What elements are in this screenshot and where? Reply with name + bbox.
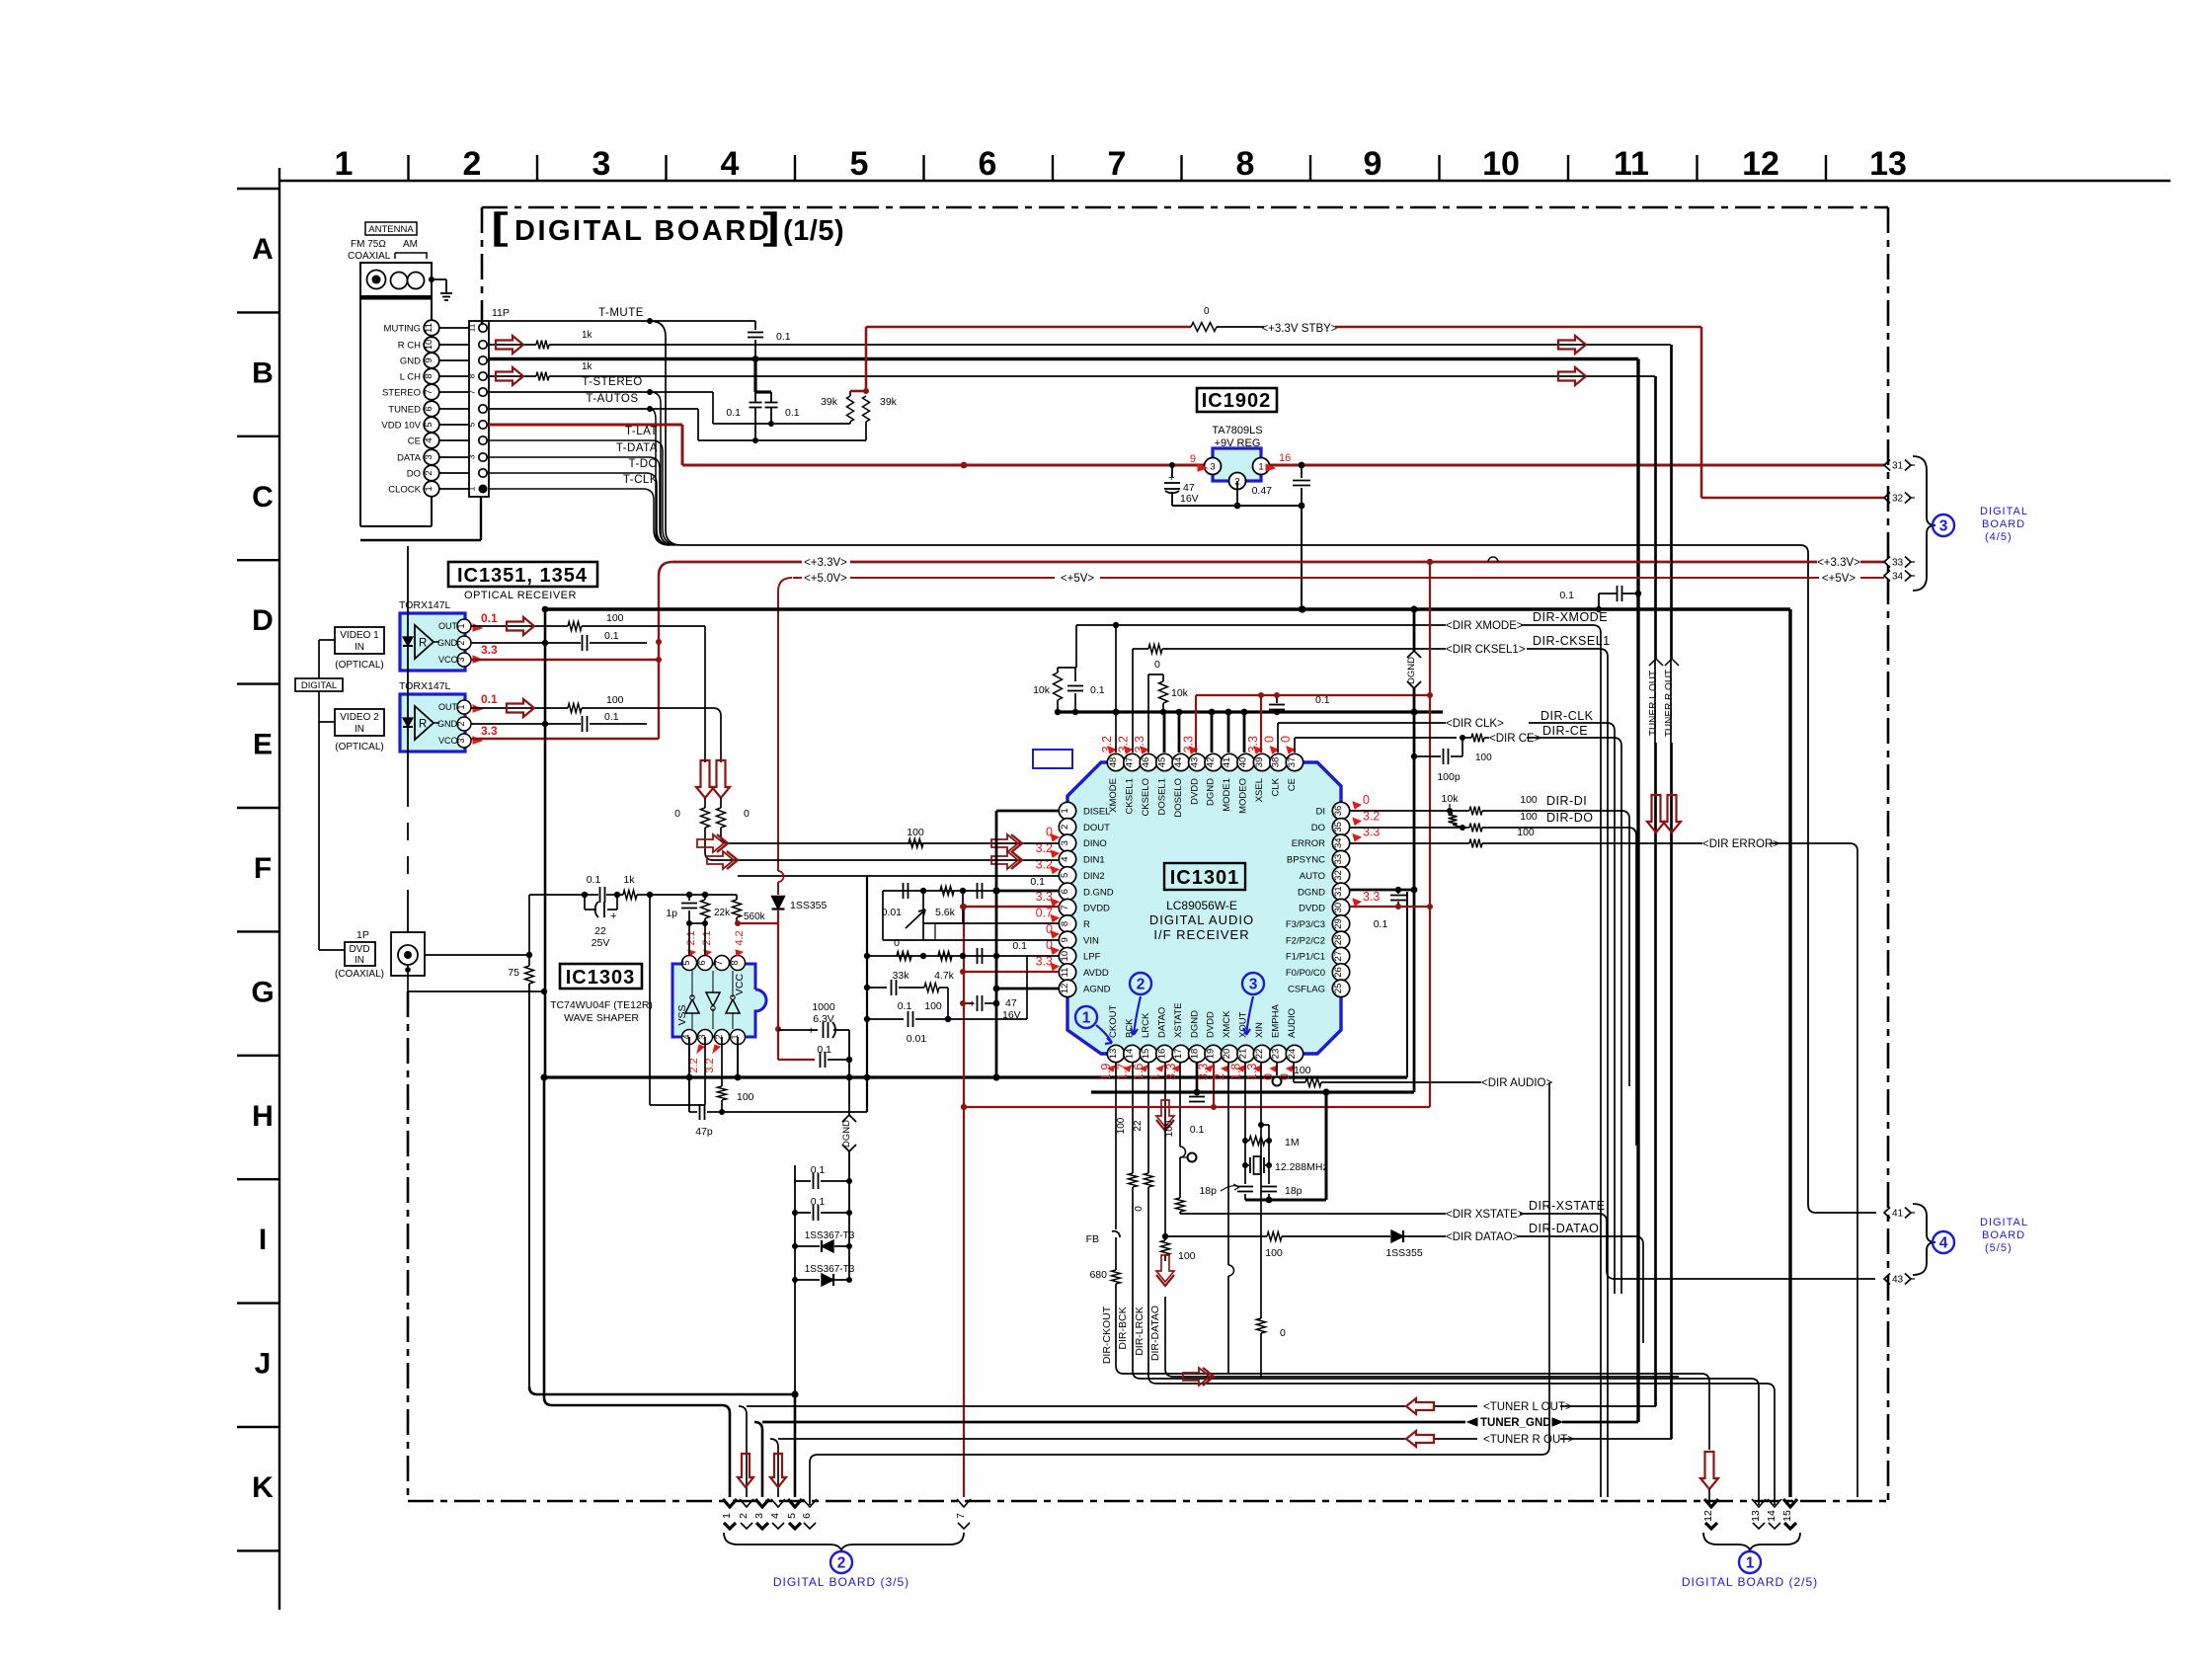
svg-text:IN: IN [355,955,364,966]
svg-text:0.1: 0.1 [811,1196,826,1208]
svg-text:32: 32 [1333,870,1344,881]
svg-text:680: 680 [1089,1269,1107,1281]
svg-text:T-AUTOS: T-AUTOS [586,393,638,405]
svg-text:DOSEL1: DOSEL1 [1156,778,1167,816]
svg-text:DIR-CKOUT: DIR-CKOUT [1101,1306,1113,1364]
svg-text:CKSELO: CKSELO [1141,778,1151,817]
svg-text:2: 2 [1213,1073,1226,1080]
svg-text:11: 11 [1614,145,1649,183]
svg-text:9: 9 [1364,145,1382,183]
svg-text:T-DO: T-DO [629,458,658,470]
svg-text:VDD 10V: VDD 10V [381,421,421,432]
svg-text:7: 7 [1108,145,1127,183]
svg-text:0.1: 0.1 [587,874,601,886]
svg-text:8: 8 [730,960,740,965]
svg-text:IC1303: IC1303 [566,967,636,989]
svg-text:0.1: 0.1 [1012,940,1027,952]
svg-text:100: 100 [1178,1250,1196,1262]
svg-text:3.3: 3.3 [1164,1064,1178,1080]
svg-text:DIGITAL: DIGITAL [1980,506,2028,517]
svg-text:12.288MHz: 12.288MHz [1275,1161,1328,1173]
svg-text:3: 3 [753,1513,765,1519]
svg-text:<DIR ERROR>: <DIR ERROR> [1702,838,1779,850]
svg-text:MODE1: MODE1 [1222,778,1232,812]
svg-text:DIR-DI: DIR-DI [1546,794,1587,808]
svg-text:I/F RECEIVER: I/F RECEIVER [1153,927,1249,942]
svg-text:F0/P0/C0: F0/P0/C0 [1286,968,1325,979]
svg-text:5: 5 [424,422,434,427]
svg-text:DIR-CLK: DIR-CLK [1540,709,1594,723]
svg-text:0.1: 0.1 [1559,590,1574,601]
svg-text:3: 3 [456,657,466,662]
svg-text:27: 27 [1333,951,1344,962]
svg-text:BOARD: BOARD [1982,1229,2025,1241]
svg-text:3: 3 [456,738,466,743]
svg-text:6: 6 [979,145,997,183]
svg-text:F1/P1/C1: F1/P1/C1 [1286,952,1325,963]
svg-text:DGND: DGND [1406,657,1417,684]
svg-text:22k: 22k [714,908,731,918]
svg-text:10: 10 [424,340,434,351]
svg-text:4.2: 4.2 [734,930,746,945]
svg-text:DIGITAL: DIGITAL [1980,1217,2028,1228]
svg-text:8: 8 [1236,145,1255,183]
svg-text:30: 30 [1333,903,1344,913]
svg-text:VCC: VCC [734,973,746,995]
svg-text:3: 3 [592,145,611,183]
svg-text:36: 36 [1333,806,1344,817]
svg-text:DIGITAL AUDIO: DIGITAL AUDIO [1149,912,1254,927]
svg-text:DO: DO [1311,823,1325,833]
svg-text:38: 38 [1271,757,1282,768]
svg-text:0.1: 0.1 [1315,694,1330,706]
svg-text:3.3: 3.3 [481,724,498,738]
svg-text:<TUNER L OUT>: <TUNER L OUT> [1483,1401,1572,1413]
svg-text:0.1: 0.1 [1090,684,1105,696]
svg-text:T-DATA: T-DATA [616,442,658,454]
svg-text:<DIR CE>: <DIR CE> [1489,733,1541,745]
svg-text:DINO: DINO [1083,838,1107,849]
svg-text:100: 100 [1520,811,1538,823]
svg-text:CKOUT: CKOUT [1108,1005,1119,1038]
svg-text:14: 14 [1766,1510,1777,1522]
svg-text:DIR-XMODE: DIR-XMODE [1533,610,1608,624]
svg-text:12: 12 [1702,1510,1714,1522]
svg-text:DVDD: DVDD [1299,904,1325,914]
svg-text:<+5V>: <+5V> [1822,573,1856,585]
svg-text:1k: 1k [623,874,635,886]
svg-text:100: 100 [606,694,624,706]
svg-text:1P: 1P [356,929,369,941]
svg-text:11: 11 [424,323,434,333]
svg-text:1: 1 [1060,808,1070,813]
svg-text:XMCK: XMCK [1222,1010,1232,1038]
svg-text:<+3.3V STBY>: <+3.3V STBY> [1261,323,1337,335]
svg-text:<+5.0V>: <+5.0V> [804,573,847,585]
svg-text:16: 16 [1156,1049,1167,1060]
svg-text:100: 100 [1164,1120,1175,1137]
svg-text:18: 18 [1189,1049,1200,1060]
svg-text:LC89056W-E: LC89056W-E [1166,899,1237,912]
svg-text:C: C [252,481,274,514]
svg-text:33: 33 [1892,558,1904,569]
svg-text:39k: 39k [821,396,838,408]
svg-text:9: 9 [1190,453,1196,465]
svg-text:TUNED: TUNED [388,405,421,416]
svg-text:<DIR DATAO>: <DIR DATAO> [1446,1231,1520,1243]
svg-text:DIGITAL: DIGITAL [301,680,337,691]
svg-text:33k: 33k [893,970,910,982]
svg-text:TA7809LS: TA7809LS [1212,425,1262,436]
svg-text:<+3.3V>: <+3.3V> [1817,557,1860,569]
svg-text:TORX147L: TORX147L [399,680,450,692]
svg-text:5: 5 [786,1513,798,1519]
svg-text:3.3: 3.3 [1363,890,1380,904]
svg-text:WAVE SHAPER: WAVE SHAPER [564,1012,639,1024]
svg-text:21: 21 [1238,1049,1249,1060]
svg-text:4: 4 [1060,856,1070,861]
svg-text:DGND: DGND [1298,887,1325,898]
svg-text:DVDD: DVDD [1083,904,1110,914]
svg-text:14: 14 [1124,1049,1135,1060]
svg-text:5: 5 [850,145,869,183]
svg-text:(COAXIAL): (COAXIAL) [335,969,384,980]
svg-text:VSS: VSS [676,1004,688,1025]
svg-text:13: 13 [1869,145,1907,183]
svg-text:0: 0 [1279,736,1293,743]
svg-text:3: 3 [424,454,434,459]
svg-text:26: 26 [1333,967,1344,978]
svg-text:DIGITAL BOARD (3/5): DIGITAL BOARD (3/5) [773,1575,909,1589]
svg-text:0.47: 0.47 [1252,485,1273,497]
svg-text:1: 1 [1746,1555,1755,1572]
svg-text:5: 5 [681,960,691,965]
svg-text:12: 12 [1060,984,1070,994]
svg-text:3: 3 [1210,462,1215,473]
svg-text:ANTENNA: ANTENNA [368,224,414,235]
svg-text:2: 2 [463,145,482,183]
svg-text:0.1: 0.1 [811,1164,826,1176]
svg-text:1.7: 1.7 [1115,1064,1129,1080]
svg-text:18p: 18p [1285,1185,1303,1197]
svg-text:10: 10 [1060,951,1070,962]
svg-text:1.3: 1.3 [1245,1064,1259,1080]
svg-text:OUT: OUT [438,621,458,631]
svg-text:3.3: 3.3 [1197,1064,1211,1080]
svg-text:560k: 560k [744,911,766,922]
svg-text:GND: GND [400,356,421,367]
svg-text:0.1: 0.1 [726,407,741,419]
svg-text:DVD: DVD [349,944,369,955]
svg-text:H: H [252,1100,274,1133]
svg-text:IN: IN [355,724,364,735]
svg-text:+: + [610,911,616,922]
svg-text:2.1: 2.1 [685,930,697,945]
svg-text:47: 47 [1005,997,1017,1009]
svg-text:3.3: 3.3 [481,643,498,657]
svg-text:48: 48 [1108,757,1119,768]
svg-text:18p: 18p [1199,1185,1217,1197]
svg-text:8: 8 [424,373,434,378]
svg-text:1: 1 [456,704,466,709]
svg-text:3: 3 [1249,977,1258,993]
svg-text:0.1: 0.1 [604,711,619,723]
svg-text:22: 22 [1133,1120,1144,1132]
svg-text:16V: 16V [1002,1009,1021,1021]
svg-text:35: 35 [1333,822,1344,832]
svg-text:DIR-LRCK: DIR-LRCK [1134,1307,1145,1356]
svg-text:31: 31 [1333,886,1344,897]
svg-text:0.1: 0.1 [776,331,791,343]
svg-text:AM: AM [403,239,418,250]
svg-text:DI: DI [1316,807,1326,818]
svg-text:9: 9 [1060,937,1070,942]
svg-text:DATAO: DATAO [1156,1007,1167,1038]
svg-text:<TUNER R OUT>: <TUNER R OUT> [1483,1434,1574,1446]
svg-text:K: K [252,1471,274,1504]
svg-text:4: 4 [1939,1235,1948,1252]
svg-text:F2/P2/C2: F2/P2/C2 [1286,935,1325,946]
svg-text:75: 75 [508,967,519,979]
svg-text:0: 0 [674,808,680,820]
svg-text:0.1: 0.1 [1190,1124,1205,1136]
svg-text:2: 2 [738,1513,750,1519]
svg-text:LPF: LPF [1083,952,1101,963]
svg-text:DATA: DATA [397,453,422,464]
svg-text:10k: 10k [1442,793,1460,805]
svg-text:6: 6 [1060,889,1070,894]
svg-text:T-STEREO: T-STEREO [582,376,643,388]
svg-text:IC1301: IC1301 [1170,867,1240,889]
svg-text:XSTATE: XSTATE [1173,1002,1184,1038]
svg-text:0.1: 0.1 [785,407,800,419]
svg-text:0.1: 0.1 [481,692,498,706]
svg-text:100: 100 [907,827,924,838]
svg-text:42: 42 [1206,757,1217,768]
svg-text:TC74WU04F (TE12R): TC74WU04F (TE12R) [550,999,653,1011]
svg-text:R: R [419,719,427,731]
svg-text:2: 2 [1137,977,1145,993]
svg-text:D.GND: D.GND [1083,887,1114,898]
svg-text:COAXIAL: COAXIAL [348,251,391,262]
svg-text:1SS367-T3: 1SS367-T3 [805,1230,855,1241]
svg-text:43: 43 [1189,757,1200,768]
svg-text:1.9: 1.9 [1099,1064,1113,1080]
svg-text:D: D [252,604,274,637]
svg-text:23: 23 [1271,1049,1282,1060]
svg-text:16: 16 [1279,452,1291,464]
svg-text:FB: FB [1086,1233,1099,1245]
svg-text:2.1: 2.1 [701,930,713,945]
svg-text:DVDD: DVDD [1206,1011,1217,1038]
svg-text:9: 9 [424,357,434,362]
svg-text:1SS355: 1SS355 [1385,1247,1423,1259]
svg-text:DVDD: DVDD [1189,778,1200,805]
svg-text:100: 100 [1517,827,1535,838]
svg-text:<DIR XMODE>: <DIR XMODE> [1446,620,1524,632]
svg-text:10: 10 [1482,145,1520,183]
svg-text:0: 0 [1363,793,1370,807]
svg-text:1k: 1k [582,361,593,372]
svg-text:B: B [252,356,274,389]
svg-text:<DIR CKSEL1>: <DIR CKSEL1> [1446,644,1526,656]
svg-text:DGND: DGND [841,1120,852,1148]
svg-text:2: 2 [456,721,466,726]
svg-text:4: 4 [769,1513,781,1519]
svg-text:DIR-XSTATE: DIR-XSTATE [1529,1199,1605,1213]
svg-text:STEREO: STEREO [382,388,421,399]
svg-text:100p: 100p [1437,771,1461,783]
svg-text:IC1902: IC1902 [1202,390,1272,412]
svg-text:R: R [419,638,427,650]
svg-text:0.01: 0.01 [907,1033,927,1045]
svg-text:1: 1 [467,486,477,491]
svg-text:1000: 1000 [812,1001,835,1013]
svg-text:28: 28 [1333,935,1344,946]
svg-text:0: 0 [1263,736,1277,743]
svg-text:1: 1 [1258,462,1263,473]
svg-text:0: 0 [894,937,900,949]
svg-text:DIGITAL BOARD (2/5): DIGITAL BOARD (2/5) [1682,1575,1818,1589]
svg-text:<+3.3V>: <+3.3V> [804,557,847,569]
svg-text:100: 100 [1265,1247,1283,1259]
svg-text:25: 25 [1333,984,1344,994]
svg-text:34: 34 [1892,572,1904,583]
svg-text:(4/5): (4/5) [1985,531,2013,543]
svg-text:19: 19 [1206,1049,1217,1060]
svg-text:15: 15 [1141,1049,1151,1060]
svg-text:0: 0 [1154,659,1160,671]
svg-text:VCC: VCC [438,736,458,746]
svg-text:+: + [808,1025,814,1037]
svg-text:OPTICAL RECEIVER: OPTICAL RECEIVER [464,590,577,601]
svg-text:ERROR: ERROR [1292,838,1325,849]
svg-text:47p: 47p [695,1126,713,1138]
svg-text:0.1: 0.1 [817,1044,831,1056]
svg-text:R: R [1083,919,1090,930]
svg-text:AGND: AGND [1083,984,1111,994]
svg-text:VCC: VCC [438,655,458,665]
svg-text:TUNER_GND: TUNER_GND [1480,1417,1551,1429]
svg-text:41: 41 [1222,757,1232,768]
svg-text:1k: 1k [582,330,593,341]
svg-text:I: I [259,1224,267,1256]
svg-text:15: 15 [1781,1510,1793,1522]
svg-text:100: 100 [1475,752,1492,763]
svg-text:16V: 16V [1180,493,1199,505]
svg-text:7: 7 [1060,905,1070,910]
svg-text:5.6k: 5.6k [935,907,956,918]
svg-text:TORX147L: TORX147L [399,599,450,611]
svg-text:DIN1: DIN1 [1083,855,1105,866]
svg-text:0.1: 0.1 [898,1000,912,1012]
svg-text:0.7: 0.7 [1036,906,1053,919]
svg-text:1: 1 [335,145,354,183]
svg-text:J: J [255,1348,272,1381]
svg-text:37: 37 [1287,757,1298,768]
svg-text:DIR-CKSEL1: DIR-CKSEL1 [1533,634,1611,648]
svg-text:2: 2 [456,640,466,645]
svg-text:13: 13 [1750,1510,1762,1522]
svg-text:1.8: 1.8 [1229,1064,1243,1080]
svg-text:1: 1 [456,623,466,628]
svg-text:GND: GND [437,719,458,729]
svg-text:EMPHA: EMPHA [1271,1004,1282,1038]
svg-text:6: 6 [801,1513,813,1519]
svg-text:1M: 1M [1285,1137,1300,1148]
svg-text:XSEL: XSEL [1254,778,1265,802]
svg-text:100: 100 [606,612,624,624]
svg-text:7: 7 [424,389,434,394]
svg-text:GND: GND [437,638,458,648]
svg-text:4: 4 [424,437,434,442]
svg-text:CLOCK: CLOCK [388,485,421,496]
svg-text:25V: 25V [592,937,610,949]
svg-text:VIDEO 2: VIDEO 2 [340,712,379,723]
svg-text:1: 1 [1082,1010,1091,1027]
svg-text:MODEO: MODEO [1238,778,1249,814]
svg-text:1: 1 [721,1513,733,1519]
svg-text:34: 34 [1333,837,1344,848]
svg-text:DOUT: DOUT [1083,823,1110,833]
svg-text:1SS355: 1SS355 [790,900,828,911]
svg-text:IN: IN [355,642,364,653]
svg-text:1SS367-T3: 1SS367-T3 [805,1264,855,1275]
svg-text:0.1: 0.1 [604,630,619,642]
svg-text:DIR-BCK: DIR-BCK [1117,1307,1129,1349]
svg-text:E: E [253,729,273,761]
svg-text:24: 24 [1287,1049,1298,1060]
svg-text:44: 44 [1173,757,1184,768]
svg-text:2: 2 [424,470,434,475]
svg-text:1p: 1p [666,908,677,919]
svg-text:F: F [254,852,272,885]
svg-text:FM 75Ω: FM 75Ω [351,239,386,250]
svg-text:20: 20 [1222,1049,1232,1060]
svg-text:7: 7 [714,960,724,965]
svg-text:CLK: CLK [1271,777,1282,796]
svg-text:0: 0 [1280,1327,1286,1339]
svg-text:100: 100 [1294,1065,1311,1076]
svg-text:F3/P3/C3: F3/P3/C3 [1286,919,1325,930]
svg-text:7: 7 [467,389,477,394]
svg-text:OUT: OUT [438,702,458,712]
svg-text:0.01: 0.01 [882,907,903,918]
svg-text:TUNER R OUT: TUNER R OUT [1664,670,1675,737]
svg-text:7: 7 [955,1513,967,1519]
svg-text:CE: CE [408,436,421,447]
svg-text:10k: 10k [1171,687,1189,699]
svg-text:100: 100 [1116,1117,1127,1134]
svg-text:VIN: VIN [1083,935,1099,946]
svg-text:(5/5): (5/5) [1985,1242,2013,1254]
svg-text:DGND: DGND [1189,1010,1200,1038]
svg-text:6: 6 [697,960,707,965]
svg-text:11: 11 [467,323,477,332]
svg-text:100: 100 [924,1000,942,1012]
svg-text:T-MUTE: T-MUTE [598,307,644,319]
svg-text:13: 13 [1108,1049,1119,1060]
svg-text:VIDEO 1: VIDEO 1 [340,630,379,641]
svg-text:<DIR XSTATE>: <DIR XSTATE> [1446,1209,1525,1221]
svg-text:R CH: R CH [398,341,421,352]
svg-text:A: A [252,233,274,266]
svg-text:0.1: 0.1 [1030,876,1045,888]
svg-text:CKSEL1: CKSEL1 [1124,778,1135,814]
svg-text:DIN2: DIN2 [1083,871,1105,882]
svg-text:10k: 10k [1033,684,1051,696]
svg-text:2: 2 [1060,825,1070,830]
